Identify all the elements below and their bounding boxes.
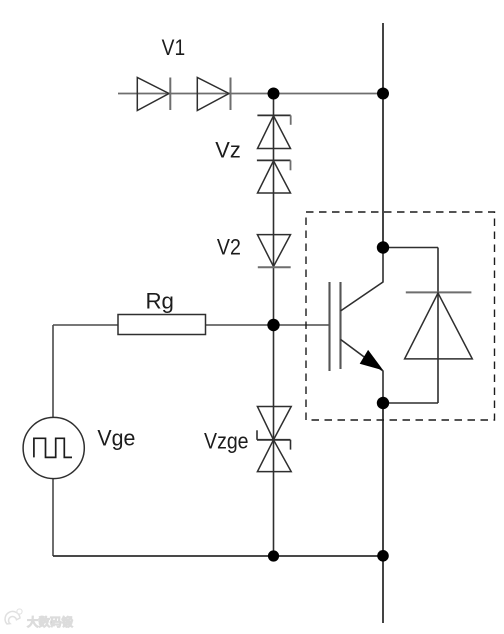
diode V2 (points down) [257, 235, 290, 268]
wire: left vertical (Vge top lead) [52, 325, 54, 418]
node: gate junction [267, 319, 279, 331]
diode freewheel (anti-parallel) [383, 248, 472, 404]
zener Vz2 (lower) [257, 160, 291, 193]
svg-text:Vge: Vge [97, 426, 135, 451]
gate bar [328, 282, 330, 371]
wire: center branch vertical (Vz / V2 / Vzge string) [273, 94, 275, 557]
node: collector junction [377, 241, 389, 253]
source Vge (pulse source) [23, 417, 84, 478]
collector lead [341, 248, 384, 311]
emitter lead [341, 339, 384, 403]
body bar [339, 282, 341, 369]
diode V1b (right series diode) [197, 78, 230, 111]
diode V1a (left series diode) [137, 78, 170, 111]
node: junction top right rail [377, 88, 389, 100]
svg-text:V2: V2 [217, 235, 241, 260]
wire: right vertical rail (lower, emitter bus) [382, 403, 384, 623]
svg-text:Vzge: Vzge [204, 429, 249, 454]
svg-text:V1: V1 [162, 35, 186, 60]
zener Vzge (bidirectional suppressor) [257, 407, 291, 472]
dashed box: IGBT module outline [306, 212, 495, 420]
wire: left vertical (Vge bottom lead) [52, 478, 54, 556]
node: bottom right rail junction [377, 550, 389, 562]
wire: gate horizontal (Vge - Rg - gate) [53, 324, 330, 326]
svg-text:大数码锻: 大数码锻 [27, 615, 73, 629]
node: bottom center branch junction [268, 550, 279, 561]
transistor IGBT Q1 [330, 248, 384, 403]
node: junction top of center branch [268, 88, 280, 100]
wire: bottom horizontal net [53, 555, 383, 557]
wire: top horizontal net (V1 anode rail) [118, 93, 383, 95]
svg-text:Vz: Vz [215, 137, 241, 162]
zener Vz1 (upper) [257, 115, 290, 148]
resistor Rg [118, 315, 206, 335]
wire: right vertical rail (upper, collector bus) [382, 23, 384, 248]
node: emitter junction [377, 397, 389, 409]
svg-text:Rg: Rg [145, 288, 174, 313]
watermark [5, 609, 73, 629]
emitter arrow [360, 350, 384, 370]
